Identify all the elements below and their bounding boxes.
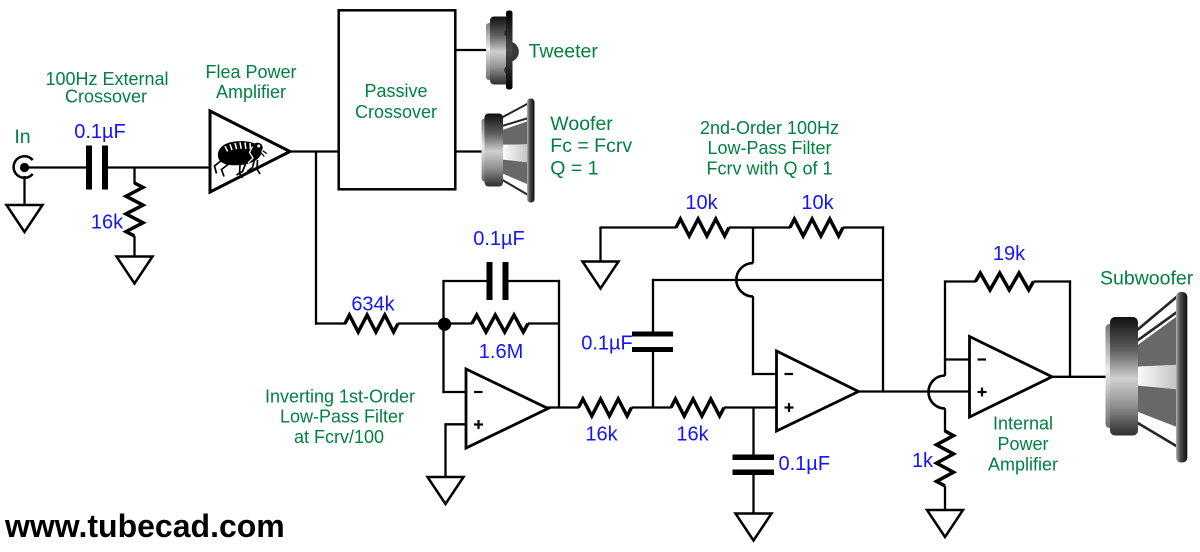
op-amp triangle Flea Power Amplifier <box>210 111 290 192</box>
label Inverting 1st-Order Low-Pass Filter at Fcrv/100 <box>265 386 415 447</box>
svg-text:Crossover: Crossover <box>65 86 147 106</box>
svg-text:at Fcrv/100: at Fcrv/100 <box>294 427 384 447</box>
vertical continues to op-amp2 minus <box>752 296 754 375</box>
wire U2 output to op-amp3 plus <box>857 390 970 392</box>
ground at U1 plus <box>428 477 464 504</box>
tweeter icon <box>486 11 519 90</box>
wire to 634k <box>316 322 346 324</box>
capacitor C3 0.1uF <box>632 332 673 353</box>
resistor 16k b <box>671 399 724 416</box>
resistor 16k a <box>579 399 632 416</box>
svg-text:Power: Power <box>997 434 1048 454</box>
wire box to woofer <box>455 150 484 152</box>
wire node to 1.6M <box>444 322 473 324</box>
svg-text:Amplifier: Amplifier <box>216 82 286 102</box>
svg-text:Crossover: Crossover <box>355 102 437 122</box>
svg-text:Q = 1: Q = 1 <box>550 157 598 179</box>
resistor 10k a <box>676 219 729 236</box>
svg-text:10k: 10k <box>801 192 834 214</box>
capacitor C4 0.1uF <box>733 455 775 476</box>
U1 plus symbol <box>474 423 483 425</box>
wire 10k a to 10k b, junction at 753.5 <box>729 226 791 228</box>
wire hop over y=280 wire <box>736 263 753 296</box>
svg-text:Woofer: Woofer <box>550 113 613 135</box>
woofer icon <box>482 99 535 203</box>
U2 minus symbol <box>785 373 794 375</box>
tee to op-amp3 minus <box>944 358 970 360</box>
ground below 1k <box>927 510 963 537</box>
wire branch down to 634k line <box>315 152 317 325</box>
op-amp U2 <box>777 351 859 431</box>
ground left of 10k chain <box>583 262 619 289</box>
ground below 16k <box>117 257 153 284</box>
label Flea Power Amplifier <box>205 62 296 102</box>
C4 bottom stem to ground <box>752 475 754 514</box>
wire flea amp output to passive crossover box <box>290 150 339 152</box>
wire C1 to flea amp input, junction at x=134.5 <box>108 166 210 168</box>
label 2nd-Order 100Hz Low-Pass Filter Fcrv with Q of 1 <box>700 118 839 178</box>
wire 19k right lead and corner down <box>1034 280 1072 282</box>
capacitor C2 0.1uF feedback <box>487 262 509 300</box>
resistor 1.6M <box>472 315 528 332</box>
wire C2 left lead <box>444 280 487 282</box>
U3 plus symbol <box>978 391 987 393</box>
op-amp U1 <box>466 369 548 448</box>
svg-text:Low-Pass Filter: Low-Pass Filter <box>280 407 404 427</box>
svg-text:16k: 16k <box>91 212 124 234</box>
svg-text:Fcrv with Q of 1: Fcrv with Q of 1 <box>706 158 832 178</box>
svg-text:16k: 16k <box>676 424 709 446</box>
svg-text:0.1µF: 0.1µF <box>473 228 525 250</box>
svg-text:In: In <box>14 126 30 148</box>
wire 1.6M to right leg <box>528 322 560 324</box>
svg-text:16k: 16k <box>585 424 618 446</box>
U1 plus input wire <box>446 423 467 425</box>
ground below jack <box>7 176 43 232</box>
flea icon <box>215 141 267 178</box>
feedback right leg down to output <box>558 280 560 408</box>
svg-text:0.1µF: 0.1µF <box>74 121 126 143</box>
U3 minus symbol <box>978 358 987 360</box>
svg-text:Passive: Passive <box>364 81 427 101</box>
C3 top stem and wire right to x=883 <box>652 279 654 332</box>
svg-text:Inverting 1st-Order: Inverting 1st-Order <box>265 386 415 406</box>
right vertical x=883 down to output wire <box>882 226 884 392</box>
wire 10k b to top-right corner <box>843 226 884 228</box>
wire U1 out to 16k <box>546 406 579 408</box>
ground below C4 <box>736 514 772 541</box>
capacitor C4 stem down from plus wire <box>752 408 754 456</box>
svg-text:Internal: Internal <box>993 414 1053 434</box>
label 100Hz External Crossover <box>45 69 168 107</box>
svg-text:www.tubecad.com: www.tubecad.com <box>4 508 285 544</box>
svg-text:0.1µF: 0.1µF <box>581 333 633 355</box>
subwoofer icon <box>1106 292 1188 463</box>
svg-text:634k: 634k <box>351 294 395 316</box>
label Woofer Fc = Fcrv Q = 1 <box>550 113 632 179</box>
wire 634k to node dot <box>398 322 444 324</box>
resistor 19k <box>976 273 1034 290</box>
wire jack to C1 <box>27 166 87 168</box>
svg-text:19k: 19k <box>993 243 1026 265</box>
wire node up to C2 level <box>442 280 444 324</box>
wire 1k to ground <box>944 486 946 511</box>
wire U3 output to subwoofer <box>1050 376 1108 378</box>
U1 minus symbol <box>474 391 483 393</box>
U2 plus symbol <box>785 406 794 408</box>
op-amp U3 <box>970 337 1053 418</box>
svg-text:2nd-Order 100Hz: 2nd-Order 100Hz <box>700 118 839 138</box>
svg-text:Tweeter: Tweeter <box>529 40 599 62</box>
capacitor C3 stem up <box>652 352 654 408</box>
label Internal Power Amplifier <box>988 414 1058 475</box>
wire 16k a to 16k b, junction at 653 <box>632 406 672 408</box>
node dot junction <box>438 318 451 331</box>
svg-text:1.6M: 1.6M <box>479 341 523 363</box>
svg-text:Amplifier: Amplifier <box>988 454 1058 474</box>
svg-text:Flea Power: Flea Power <box>205 62 296 82</box>
wire hop over output wire y=392 <box>929 376 946 409</box>
svg-text:Low-Pass Filter: Low-Pass Filter <box>707 138 831 158</box>
svg-text:Subwoofer: Subwoofer <box>1100 268 1194 290</box>
ground stem for 10k chain <box>599 228 601 263</box>
feedback vertical x=945 from 19k down to hop <box>944 280 946 375</box>
svg-text:10k: 10k <box>685 192 718 214</box>
resistor 1k vertical <box>937 431 954 486</box>
svg-text:Fc = Fcrv: Fc = Fcrv <box>550 135 632 157</box>
svg-text:1k: 1k <box>912 450 934 472</box>
capacitor C1 0.1uF <box>86 146 108 190</box>
input jack J1 <box>14 156 33 178</box>
vertical from 10k junction down to hop <box>752 228 754 264</box>
wire box to tweeter <box>455 49 488 51</box>
wire node down to op-amp1 minus <box>442 324 444 393</box>
wire R16k to ground <box>133 236 135 257</box>
resistor 634k <box>345 315 398 332</box>
label Passive Crossover <box>355 81 437 122</box>
wire junction down to R 16k <box>133 168 135 185</box>
wire gnd to 10k a <box>599 226 676 228</box>
svg-text:0.1µF: 0.1µF <box>779 453 831 475</box>
wire 16k b to op-amp2 plus, junction at 753.5 <box>724 406 777 408</box>
resistor R 16k vertical <box>126 183 143 236</box>
resistor 10k b <box>790 219 843 236</box>
vertical continues to 1k <box>944 408 946 432</box>
wire 19k left lead <box>945 280 976 282</box>
wire C2 right lead to right leg <box>509 280 561 282</box>
passive crossover box <box>339 10 456 189</box>
